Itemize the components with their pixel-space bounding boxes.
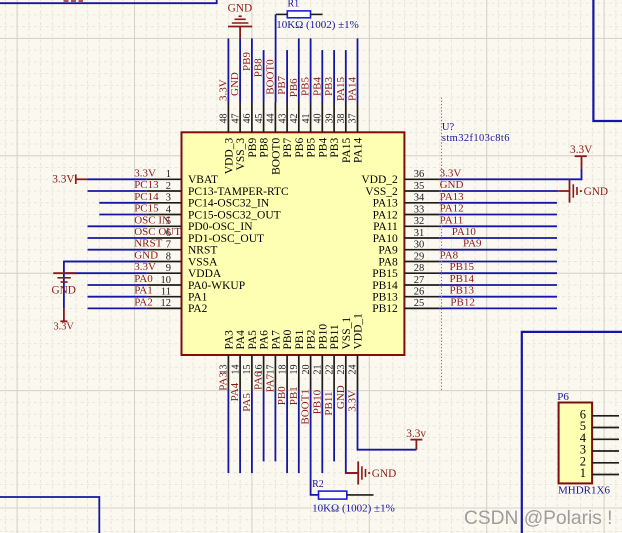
svg-text:PB12: PB12 [450, 296, 474, 308]
component outline bottom-right [522, 332, 622, 533]
pin 7 NRST [147, 240, 218, 257]
svg-text:VDD_1: VDD_1 [353, 313, 365, 350]
svg-text:PB6: PB6 [294, 138, 306, 158]
svg-text:PA2: PA2 [134, 296, 153, 308]
svg-text:PA1: PA1 [134, 285, 153, 297]
pin 47 VSS_3 [230, 103, 247, 171]
svg-text:VDDA: VDDA [188, 268, 222, 280]
svg-text:PC15-OSC32_OUT: PC15-OSC32_OUT [188, 209, 281, 221]
ground GND bottom [346, 462, 396, 485]
pin 24 VDD_1 [348, 313, 365, 391]
pin 4 PC15-OSC32_OUT [147, 204, 281, 221]
wire VSSA row 8 to ground [64, 262, 147, 309]
wire R1 to BOOT0 pin 44 [275, 14, 277, 102]
svg-text:VBAT: VBAT [188, 174, 218, 186]
wire net PA8 (right row 29) [439, 261, 557, 263]
pin 6 (P6) [580, 407, 619, 421]
pin 3 PC14-OSC32_IN [147, 193, 270, 210]
svg-text:PB0: PB0 [282, 329, 294, 349]
svg-text:U?: U? [442, 122, 455, 133]
svg-text:PB7: PB7 [282, 138, 294, 158]
component outline top-right [593, 0, 622, 121]
wire net PA11 (right row 32) [439, 225, 557, 227]
svg-text:OSC OUT: OSC OUT [134, 226, 181, 238]
svg-text:PC14: PC14 [134, 191, 159, 203]
svg-text:PA2: PA2 [188, 303, 208, 315]
pin 17 PA7 [266, 330, 283, 391]
wire net 3.3V (right row 36) [439, 169, 581, 179]
pin 4 (P6) [580, 431, 619, 445]
wire top pin 40 [321, 50, 323, 102]
svg-text:41: 41 [301, 114, 312, 124]
svg-text:PA7: PA7 [264, 373, 276, 392]
wire top pin 39 [333, 50, 335, 102]
svg-text:PB10: PB10 [311, 389, 323, 414]
svg-text:44: 44 [266, 114, 277, 124]
wire net PA13 (right row 34) [439, 202, 557, 204]
pin 1 (P6) [580, 466, 619, 480]
wire bottom pin 15 [251, 391, 253, 474]
svg-text:PB5: PB5 [300, 77, 312, 96]
svg-text:7: 7 [166, 240, 171, 251]
svg-text:9: 9 [166, 263, 171, 274]
svg-text:36: 36 [414, 169, 425, 180]
svg-text:PA0-WKUP: PA0-WKUP [188, 280, 245, 292]
svg-text:NRST: NRST [188, 245, 217, 257]
pin 10 PA0-WKUP [147, 275, 245, 292]
pin 14 PA4 [230, 330, 247, 391]
svg-text:GND: GND [229, 72, 241, 96]
ground GND right [558, 179, 608, 202]
svg-text:32: 32 [414, 216, 425, 227]
svg-text:PA1: PA1 [188, 292, 208, 304]
svg-text:GND: GND [51, 285, 75, 297]
svg-text:3.3v: 3.3v [406, 428, 426, 440]
svg-text:PB0: PB0 [276, 386, 288, 405]
svg-text:CSDN @Polaris !: CSDN @Polaris ! [464, 508, 613, 529]
wire top pin 37 [357, 38, 359, 102]
pin 15 PA5 [242, 330, 259, 391]
wire top pin 48 [227, 38, 229, 102]
svg-text:23: 23 [336, 365, 347, 375]
wire VSS_1 to ground [346, 391, 358, 473]
svg-text:PD1-OSC_OUT: PD1-OSC_OUT [188, 233, 264, 245]
svg-text:40: 40 [313, 114, 324, 124]
wire net PB15 (right row 28) [439, 272, 557, 274]
wire bottom pin 13 [227, 391, 229, 474]
svg-text:stm32f103c8t6: stm32f103c8t6 [442, 133, 510, 144]
pin 3 (P6) [580, 443, 619, 457]
svg-text:3.3V: 3.3V [134, 167, 156, 179]
svg-text:PB8: PB8 [253, 58, 265, 77]
svg-text:1: 1 [166, 169, 171, 180]
svg-text:17: 17 [266, 365, 277, 375]
wire net PC13 (left row 2) [88, 190, 147, 192]
pin 38 PA15 [336, 103, 353, 163]
connector P6 [557, 391, 592, 483]
IC U1 STM32F103C8T6 body [182, 132, 405, 355]
svg-text:3: 3 [166, 193, 171, 204]
svg-text:30: 30 [414, 240, 425, 251]
svg-text:PB1: PB1 [294, 329, 306, 349]
resistor R2 [312, 479, 395, 514]
svg-text:PA14: PA14 [347, 76, 359, 101]
svg-text:OSC IN: OSC IN [134, 214, 170, 226]
wire bottom pin 19 [298, 391, 300, 474]
svg-text:GND: GND [372, 468, 396, 480]
svg-text:PA6: PA6 [259, 330, 271, 350]
svg-text:PB13: PB13 [450, 285, 475, 297]
svg-text:VDD_3: VDD_3 [224, 138, 236, 175]
pin 1 VBAT [147, 169, 218, 186]
wire bottom pin 18 [286, 391, 288, 474]
svg-text:BOOT0: BOOT0 [271, 138, 283, 175]
selection marker (dashed) [441, 98, 443, 391]
svg-text:PA3: PA3 [224, 330, 236, 350]
svg-text:GND: GND [584, 186, 608, 198]
pin 8 VSSA [147, 251, 218, 268]
svg-text:1: 1 [580, 466, 586, 480]
svg-text:MHDR1X6: MHDR1X6 [558, 485, 610, 497]
pin 25 PB12 [372, 298, 439, 315]
svg-text:PA10: PA10 [373, 233, 398, 245]
svg-text:26: 26 [414, 287, 425, 298]
svg-text:PA14: PA14 [353, 138, 365, 163]
svg-text:11: 11 [161, 287, 171, 298]
wire net PC14 (left row 3) [99, 202, 147, 204]
pin 31 PA10 [373, 228, 440, 245]
svg-text:46: 46 [242, 114, 253, 124]
pin 48 VDD_3 [219, 103, 236, 175]
svg-text:39: 39 [324, 114, 335, 124]
svg-text:PA4: PA4 [229, 382, 241, 401]
wire net PA10 (right row 31) [439, 237, 557, 239]
wire net PA12 (right row 33) [439, 214, 557, 216]
svg-text:10: 10 [161, 275, 172, 286]
wire top pin 38 [345, 50, 347, 102]
wire net PA0 (left row 10) [88, 284, 147, 286]
pin 26 PB13 [372, 287, 439, 304]
svg-text:PA15: PA15 [335, 76, 347, 101]
svg-text:PB9: PB9 [247, 138, 259, 158]
svg-text:PA4: PA4 [235, 330, 247, 350]
pin 22 PB11 [324, 324, 341, 390]
wire top pin 46 [251, 38, 253, 102]
svg-text:PB3: PB3 [323, 77, 335, 96]
svg-text:PA11: PA11 [373, 221, 398, 233]
node remnant (cut text at top) [64, 0, 84, 2]
svg-text:PB13: PB13 [372, 292, 398, 304]
wire bottom pin 17 [274, 391, 276, 462]
svg-text:BOOT0: BOOT0 [264, 59, 276, 95]
svg-text:28: 28 [414, 263, 425, 274]
svg-text:18: 18 [277, 365, 288, 375]
svg-text:PB11: PB11 [323, 392, 335, 416]
svg-text:45: 45 [254, 114, 265, 124]
svg-text:VSS_1: VSS_1 [341, 317, 353, 350]
svg-text:47: 47 [230, 114, 241, 124]
pin 6 PD1-OSC_OUT [147, 228, 264, 245]
svg-text:NRST: NRST [134, 238, 162, 250]
wire top-left net [0, 0, 217, 3]
pin 39 PB3 [324, 103, 341, 158]
svg-text:25: 25 [414, 298, 425, 309]
wire top pin 43 [286, 50, 288, 102]
svg-text:3.3V: 3.3V [54, 321, 75, 332]
wire GND to pin 47 [239, 38, 241, 102]
svg-text:PB11: PB11 [329, 324, 341, 349]
pin 29 PA8 [378, 251, 439, 268]
pin 34 PA13 [373, 193, 440, 210]
wire net PB13 (right row 26) [439, 296, 557, 298]
svg-text:PA8: PA8 [440, 250, 459, 262]
svg-text:PA9: PA9 [463, 238, 482, 250]
svg-text:PA8: PA8 [378, 256, 398, 268]
svg-text:GND: GND [228, 3, 252, 15]
wire net PA1 (left row 11) [88, 296, 147, 298]
wire bottom pin 21 [321, 391, 323, 474]
wire net GND (right row 35) [439, 190, 558, 192]
power port 3.3v bottom [406, 428, 426, 450]
svg-text:15: 15 [242, 365, 253, 375]
svg-text:PB9: PB9 [241, 52, 253, 71]
pin 32 PA11 [373, 216, 439, 233]
pin 5 PD0-OSC_IN [147, 216, 253, 233]
power port 3.3V below left ground [54, 308, 75, 332]
wire top pin 42 [298, 38, 300, 102]
svg-text:PA7: PA7 [271, 330, 283, 350]
svg-text:21: 21 [313, 365, 324, 375]
svg-text:PB4: PB4 [311, 77, 323, 96]
svg-text:29: 29 [414, 251, 425, 262]
pin 5 (P6) [580, 419, 619, 433]
wire bottom-left net [0, 497, 99, 533]
power port 3.3V right [570, 144, 593, 169]
pin 27 PB14 [372, 275, 439, 292]
svg-text:PB4: PB4 [317, 138, 329, 158]
svg-text:10KΩ (1002) ±1%: 10KΩ (1002) ±1% [276, 19, 359, 31]
pin 16 PA6 [254, 330, 271, 391]
svg-text:10KΩ (1002) ±1%: 10KΩ (1002) ±1% [312, 502, 395, 514]
svg-text:3.3V: 3.3V [440, 167, 462, 179]
svg-text:2: 2 [166, 181, 171, 192]
svg-text:33: 33 [414, 204, 425, 215]
pin 9 VDDA [147, 263, 222, 280]
wire net PA9 (right row 30) [439, 249, 557, 251]
pin 2 (P6) [580, 454, 619, 468]
svg-text:PA0: PA0 [134, 273, 153, 285]
svg-text:P6: P6 [557, 391, 569, 403]
svg-text:R1: R1 [288, 0, 300, 9]
wire net PA2 (left row 12) [88, 307, 147, 309]
svg-text:PA3: PA3 [217, 372, 229, 391]
pin 20 PB2 [301, 329, 318, 390]
ground GND left [51, 273, 75, 296]
svg-text:38: 38 [336, 114, 347, 124]
svg-text:3.3V: 3.3V [570, 144, 593, 156]
ground GND top [228, 3, 253, 39]
svg-text:20: 20 [301, 365, 312, 375]
svg-text:PA9: PA9 [378, 245, 398, 257]
pin 21 PB10 [313, 324, 330, 391]
pin 40 PB4 [313, 103, 330, 158]
pin 19 PB1 [289, 329, 306, 390]
pin 44 BOOT0 [266, 103, 283, 175]
power port 3.3V left [52, 174, 87, 186]
wire BOOT1 to R2 [311, 391, 319, 495]
svg-text:PC14-OSC32_IN: PC14-OSC32_IN [188, 198, 270, 210]
svg-text:PB14: PB14 [372, 280, 398, 292]
svg-text:PC13: PC13 [134, 179, 159, 191]
wire net NRST (left row 7) [88, 249, 147, 251]
svg-text:43: 43 [277, 114, 288, 124]
wire net GND (left row 8) [64, 261, 147, 263]
pin 23 VSS_1 [336, 317, 353, 391]
svg-text:PB15: PB15 [372, 268, 398, 280]
svg-text:VSS_3: VSS_3 [235, 138, 247, 171]
svg-text:PA12: PA12 [440, 203, 464, 215]
wire net PB14 (right row 27) [439, 284, 557, 286]
svg-text:34: 34 [414, 193, 425, 204]
svg-text:PB6: PB6 [288, 78, 300, 97]
svg-text:37: 37 [348, 114, 359, 124]
wire net PC15 (left row 4) [99, 214, 147, 216]
svg-text:24: 24 [348, 365, 359, 375]
svg-text:PB3: PB3 [329, 138, 341, 158]
svg-text:VSS_2: VSS_2 [365, 186, 398, 198]
svg-text:GND: GND [440, 179, 464, 191]
svg-text:GND: GND [134, 250, 158, 262]
svg-text:PB5: PB5 [306, 138, 318, 158]
svg-text:3.3V: 3.3V [217, 79, 229, 101]
pin 35 VSS_2 [365, 181, 439, 198]
svg-text:27: 27 [414, 275, 425, 286]
wire VDD_1 to 3.3v [358, 391, 417, 450]
resistor R1 [276, 0, 359, 31]
pin 13 PA3 [219, 330, 236, 391]
svg-text:R2: R2 [312, 479, 324, 490]
svg-text:19: 19 [289, 365, 300, 375]
svg-text:48: 48 [219, 114, 230, 124]
svg-text:VDD_2: VDD_2 [361, 174, 398, 186]
wire top pin 45 [263, 50, 265, 102]
pin 18 PB0 [277, 329, 294, 390]
svg-text:PB12: PB12 [372, 303, 398, 315]
pin 12 PA2 [147, 298, 208, 315]
svg-text:PC15: PC15 [134, 203, 159, 215]
pin 33 PA12 [373, 204, 440, 221]
wire bottom pin 14 [239, 391, 241, 474]
wire bottom pin 22 [333, 391, 335, 462]
svg-text:PA13: PA13 [373, 198, 398, 210]
svg-text:PA13: PA13 [440, 191, 465, 203]
svg-text:3.3V: 3.3V [52, 174, 75, 186]
svg-text:PB15: PB15 [450, 261, 475, 273]
svg-text:3.3V: 3.3V [134, 261, 156, 273]
svg-text:PA5: PA5 [241, 393, 253, 412]
wire net OSC IN (left row 5) [88, 225, 147, 227]
svg-text:PA11: PA11 [440, 214, 464, 226]
pin 45 PB8 [254, 103, 271, 158]
svg-text:PB7: PB7 [276, 75, 288, 94]
pin 43 PB7 [277, 103, 294, 158]
wire net 3.3V (left row 9) [64, 272, 147, 274]
pin 37 PA14 [348, 103, 365, 163]
wire net 3.3V (left row 1) [88, 178, 147, 180]
pin 41 PB5 [301, 103, 318, 158]
svg-text:31: 31 [414, 228, 425, 239]
svg-text:35: 35 [414, 181, 425, 192]
svg-text:PB8: PB8 [259, 138, 271, 158]
svg-text:PB2: PB2 [306, 329, 318, 349]
svg-text:PB1: PB1 [288, 386, 300, 405]
wire net OSC OUT (left row 6) [88, 237, 147, 239]
svg-text:42: 42 [289, 114, 300, 124]
svg-text:PA12: PA12 [373, 209, 398, 221]
svg-text:PD0-OSC_IN: PD0-OSC_IN [188, 221, 253, 233]
svg-text:PC13-TAMPER-RTC: PC13-TAMPER-RTC [188, 186, 289, 198]
svg-text:PA5: PA5 [247, 330, 259, 350]
pin 46 PB9 [242, 103, 259, 158]
svg-text:12: 12 [161, 298, 172, 309]
wire bottom pin 16 [263, 391, 265, 462]
pin 36 VDD_2 [361, 169, 439, 186]
svg-text:PA15: PA15 [341, 138, 353, 163]
svg-text:22: 22 [324, 365, 335, 375]
pin 11 PA1 [147, 287, 208, 304]
wire top pin 41 [310, 38, 312, 102]
svg-text:PA10: PA10 [452, 226, 477, 238]
svg-text:8: 8 [166, 251, 171, 262]
svg-text:14: 14 [230, 365, 241, 375]
svg-text:PA6: PA6 [253, 371, 265, 390]
svg-text:VSSA: VSSA [188, 256, 218, 268]
svg-text:PB14: PB14 [450, 273, 475, 285]
pin 30 PA9 [378, 240, 439, 257]
svg-text:PB10: PB10 [317, 324, 329, 350]
pin 2 PC13-TAMPER-RTC [147, 181, 289, 198]
pin 42 PB6 [289, 103, 306, 158]
pin 28 PB15 [372, 263, 439, 280]
wire net PB12 (right row 25) [439, 307, 557, 309]
